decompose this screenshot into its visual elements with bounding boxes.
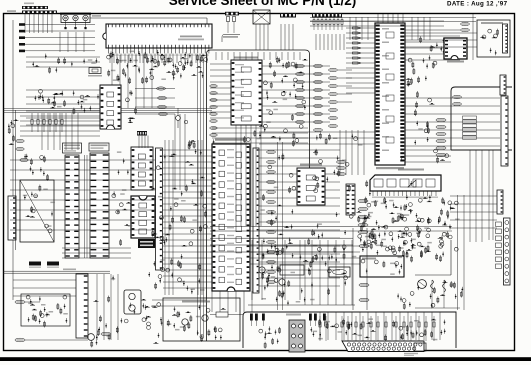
vertical drops to bottom connector [320,312,440,340]
module inner bus verticals [198,60,204,335]
wires top-left mesh [60,32,84,52]
resistor under hphone bar 2 [233,17,236,22]
tiny label top-left corner [7,10,16,12]
components between 160-205 [171,140,207,294]
CRT socket strip right edge upper [500,75,506,95]
parts right of IC501 dense [260,153,296,290]
crossed option box left [20,180,54,242]
module box right rounded [451,87,512,150]
wires from top connectors [25,14,52,33]
headphone left vertical [472,14,474,60]
crystal X101 [89,68,101,74]
connector strip P402 tall right [90,153,109,258]
IC03 DIP small upper [131,147,153,190]
relay box power [329,267,350,277]
connector strip right edge y190 [497,190,503,214]
wire mesh left block [42,113,78,150]
net oval MAIN1 [15,300,25,304]
vertical deflection module IC401 [370,175,441,196]
coil bottom right 2 [443,280,446,292]
long rails center [210,226,353,252]
center module boundary left edge [207,50,310,341]
rail drops from IC201 [236,125,261,226]
svg-text:DATE : Aug 12 ,'97: DATE : Aug 12 ,'97 [447,0,508,7]
wires IC201 left [210,64,231,118]
bottom-left extra parts [91,275,161,347]
degauss component [124,290,141,314]
resistor marks left of IC601 [353,27,359,29]
bottom box parts [259,326,281,348]
components around IC201 [264,57,308,129]
photocoupler ellipse [418,280,427,289]
wires between strips [85,155,88,258]
parts power bottom right [397,281,463,310]
strip connector T-CON [76,274,88,338]
net ovals inside module [453,95,462,98]
AV IN circuit parts [167,305,226,342]
main connector gray strip [289,320,305,352]
transistor Q202 [202,315,208,321]
headphone option box [477,20,510,57]
AV IN OPTION box [163,298,240,341]
net ovals left of IC401 [337,160,346,163]
wires right edge [489,150,493,240]
transistor Q201 [182,319,188,325]
pin number row under IC101 [109,55,209,56]
ferrite bead sym [216,312,228,317]
IC401 label [398,169,424,171]
pin drop wires under IC101 [110,54,207,64]
left edge double vertical [15,110,17,250]
tiny label above bar A [24,3,34,5]
IC102 audio amp DIP [100,85,121,129]
power box right edge lines [458,195,465,310]
transistor cluster x178 [176,116,181,121]
black part label under IC04 [138,239,155,248]
pin labels under IC401 [372,197,438,198]
IC to right of IC601 box region wires [350,17,430,40]
net ovals col left of IC201 [210,85,218,88]
inner label boxes column [463,116,477,119]
vertical bus left of IC501 [165,140,202,295]
wire mesh center-bottom [212,291,252,312]
extra parts above edge connector [313,318,446,341]
left edge ovals net labels [16,139,24,142]
net ovals col x161 [157,87,166,90]
thin connector strip right of DIPs [156,148,163,270]
IC101 main IF IC horizontal DIP [103,24,212,54]
IF can component [253,10,270,24]
choke L1 [19,23,25,26]
choke L3 [19,36,25,39]
SIF module IC801 castellated [444,38,467,59]
resistor array left of strip [496,222,502,268]
transistor Q801 [279,279,285,285]
hphone connector black bar [225,12,239,16]
net label ovals column center [296,64,305,67]
power section right verticals [353,228,367,310]
parts cluster under bus left [35,91,99,110]
parts right of IC601 col [406,58,435,145]
connector strip P403 small left edge [8,196,16,240]
vertical parts above edge connector [319,316,321,341]
power section box [183,240,355,305]
resistor pack P601 [29,262,41,266]
box bottom-left with diodes [21,294,70,326]
parts row under IC101 [107,50,208,67]
net ovals left of smps field [358,199,368,202]
power ovals right [359,244,369,247]
striped caps inside bottom box [250,314,253,321]
bus lines under IC101 [3,109,212,113]
components power area [261,238,356,305]
center module lower wires [212,128,308,143]
black striped bar H1 [280,13,296,18]
resistor pack P602 [47,262,59,266]
wires across top right [310,21,444,26]
wires right center 405-450 [405,150,451,162]
label box 4A SYSTEM OPTION [63,143,82,153]
label box AV STEREO OPTION [89,143,109,151]
strip connector under IC301 [346,184,355,215]
net oval MAIN2 [15,338,25,342]
box small power [280,265,304,275]
net ovals column x332 [329,68,338,71]
bottom module rounded box [243,312,456,348]
extra short hwires center-left [152,300,206,306]
left vertical bus wire [12,20,14,300]
components right mid [398,149,449,257]
hphone option box corner [222,35,240,43]
coil bottom right 1 [431,280,434,292]
resistor under hphone bar 1 [227,17,230,22]
IC04 DIP small lower [131,196,155,238]
transistor Q601 [88,334,95,341]
parts above crossed box [24,154,48,181]
components right of IC102 [126,90,137,123]
long rail y272 left [3,271,110,273]
extra parts cluster left bus [39,89,92,114]
parts right of degauss [142,272,162,326]
wires right of IC601 [405,30,460,60]
connector strip P401 tall left [65,155,79,258]
IC601 label [376,167,404,169]
choke L4 [19,43,25,46]
net ovals column x320 [314,64,323,67]
CRT socket strip right edge [501,96,508,166]
small box bottom right [414,343,426,351]
SMPS control box IC801 [360,256,404,277]
extra drops top center [316,34,344,50]
antenna jack box with circles [61,14,90,23]
IC601 tall vertical IC right [375,23,405,165]
wires power section [250,246,360,264]
net ovals right of IC501 [267,150,276,153]
choke L5 [19,50,25,53]
main edge connector trapezoid [342,341,424,352]
wires above IC601 [378,14,403,23]
power box bottom edge [248,304,355,306]
black striped bar H2 [312,13,342,18]
wires from ovals to drops [135,89,175,115]
box bottom right upper [415,274,451,276]
power drops verticals [252,240,300,300]
extra parts power left-mid dense [373,199,456,262]
left-mid extra wires [62,248,131,258]
resistor pairs row y122 [31,120,33,125]
components below IC101 [108,57,204,85]
net ovals col right module [436,118,446,121]
parts top-left mid [32,54,97,74]
wires left of IC601 upper [346,28,375,93]
long verticals right of IC501 [278,142,283,310]
transistor Q802 [259,267,265,273]
pin strip right of IC501 [253,148,259,293]
wire above IC101 [90,17,207,19]
wires right module [405,98,500,146]
wires right of IC201 to ovals [262,66,330,122]
label under edge connector [404,353,418,354]
components under ovals 315-375 [313,132,362,166]
parts power right dense [360,198,459,258]
wires bottom right [415,307,460,309]
components between option strips [112,151,132,245]
center module inner drops [216,52,300,60]
wires bottom left [13,280,76,296]
components below IC401 [356,197,451,262]
connector strip right edge tall [504,218,511,285]
components left column mid [8,120,18,145]
extra parts center-left column [151,154,175,277]
resistor column under bar H2 [313,20,315,25]
wire mesh right of micom [259,150,340,286]
IC501 micom tall DIP [212,144,250,291]
wires into IC102 [26,90,100,125]
wires top right spread [310,18,476,22]
label HPHONE OPTION [223,36,238,38]
vertical wires center top [256,24,293,50]
components left of IC801 [420,36,445,68]
connector J1 top-left bar A [22,6,48,9]
wires left-middle mesh [10,160,155,230]
choke L2 [19,30,25,33]
small connector bar 4pin [137,131,147,136]
bottom black bar [0,357,531,361]
wires left of IC501 [163,150,212,288]
right edge wires 470-490 [470,150,482,242]
IC301 small DIP right-center [297,168,325,205]
svg-text:Service Sheet of MC P/N (1/2): Service Sheet of MC P/N (1/2) [169,0,357,8]
net ovals top right [461,22,470,25]
mid rails x260-450 [259,132,375,144]
label above connector [286,314,301,316]
connector J1 top-left bar B [22,11,57,14]
net oval x105 [101,332,111,335]
IC201 video chroma DIP [231,60,262,125]
parts col 312-374 [312,170,374,252]
